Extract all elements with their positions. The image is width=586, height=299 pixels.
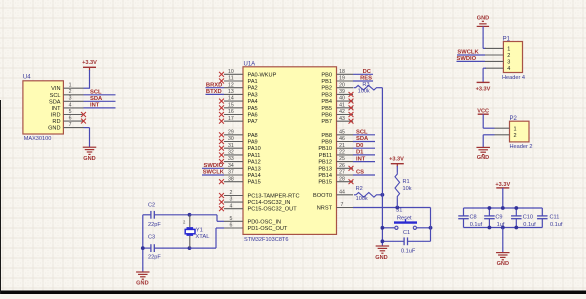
- svg-text:SWCLK: SWCLK: [203, 170, 225, 176]
- ground GND (cap bank): [496, 253, 510, 267]
- svg-text:PB1: PB1: [321, 79, 332, 85]
- svg-text:PA9: PA9: [248, 140, 258, 146]
- svg-text:44: 44: [339, 189, 345, 195]
- svg-text:PA13: PA13: [248, 166, 261, 172]
- wire P2 pin 2 to ground: [483, 135, 494, 148]
- svg-text:PB4: PB4: [321, 99, 332, 105]
- pin 42 (PB6) of U1A: [321, 109, 353, 118]
- svg-text:PA14: PA14: [248, 173, 261, 179]
- svg-text:25: 25: [339, 156, 345, 162]
- svg-text:RD: RD: [52, 119, 60, 125]
- svg-text:15: 15: [228, 102, 234, 108]
- pin 5 (IRD) of U4: [51, 109, 84, 119]
- svg-text:C10: C10: [523, 214, 533, 220]
- pin 3 (SDA) of U4: [49, 96, 84, 106]
- svg-text:27: 27: [339, 170, 345, 176]
- svg-text:5: 5: [69, 109, 72, 115]
- svg-text:P2: P2: [510, 116, 518, 122]
- svg-text:GND: GND: [375, 255, 387, 261]
- wire net SCL from U4 pin 2: [84, 94, 116, 96]
- wire net INT on U1A right: [353, 161, 375, 163]
- wire net SWDIO on PA13: [202, 167, 224, 169]
- capacitor C10 0.1uf: [511, 208, 536, 228]
- wire net SWDIO to P1 pin 3: [457, 60, 486, 62]
- wire GND to P1 pin 1: [483, 26, 486, 48]
- pin 26 (PB13) of U1A: [318, 163, 353, 172]
- net label SDA: [90, 96, 103, 102]
- svg-text:12: 12: [228, 82, 234, 88]
- svg-text:20: 20: [339, 82, 345, 88]
- svg-text:PA2: PA2: [248, 86, 258, 92]
- svg-text:11: 11: [228, 76, 233, 82]
- svg-text:0.1uf: 0.1uf: [470, 222, 483, 228]
- svg-text:PA11: PA11: [248, 153, 261, 159]
- svg-text:14: 14: [228, 96, 234, 102]
- svg-text:2: 2: [507, 53, 510, 59]
- svg-text:C2: C2: [148, 203, 155, 209]
- svg-text:PA4: PA4: [248, 99, 258, 105]
- switch S1 Reset: [382, 208, 430, 230]
- svg-text:6: 6: [69, 116, 72, 122]
- svg-text:GND: GND: [477, 155, 489, 161]
- svg-text:R2: R2: [356, 186, 363, 192]
- no-connect X on U4 pin 5: [81, 112, 86, 117]
- svg-text:PC14-OSC32_IN: PC14-OSC32_IN: [248, 200, 291, 206]
- svg-text:GND: GND: [497, 261, 509, 267]
- wire cap bank bottom rail: [464, 227, 543, 229]
- svg-text:PB3: PB3: [321, 92, 332, 98]
- svg-text:13: 13: [228, 89, 234, 95]
- wire P1 pin 4 to +3.3V: [483, 68, 486, 82]
- svg-text:PA15: PA15: [248, 180, 261, 186]
- svg-text:U1A: U1A: [244, 61, 256, 67]
- wire net SCL on U1A right: [353, 134, 375, 136]
- pin 34 (PA13) of U1A: [224, 163, 261, 172]
- wire net D0 on U1A right: [353, 147, 375, 149]
- svg-text:D0: D0: [356, 143, 363, 149]
- wire NRST right rail: [430, 208, 432, 242]
- svg-text:SWDIO: SWDIO: [204, 163, 224, 169]
- svg-text:SWDIO: SWDIO: [457, 56, 477, 62]
- svg-text:PA6: PA6: [248, 113, 258, 119]
- svg-text:IRD: IRD: [51, 113, 61, 119]
- pin 1 (VIN) of U4: [51, 83, 83, 93]
- svg-text:PB5: PB5: [321, 106, 332, 112]
- svg-text:PB15: PB15: [318, 180, 332, 186]
- svg-text:PA7: PA7: [248, 119, 258, 125]
- pin 20 (PB2) of U1A: [321, 82, 353, 91]
- svg-text:+3.3V: +3.3V: [476, 86, 491, 92]
- wire C2 to PD0-OSC_IN: [190, 215, 225, 222]
- wire net INT from U4 pin 4: [84, 107, 116, 109]
- wire net SDA from U4 pin 3: [84, 100, 116, 102]
- pin 1 of P1: [485, 46, 510, 52]
- svg-text:Header 2: Header 2: [510, 144, 533, 150]
- crystal Y1 XTAL: [183, 215, 210, 248]
- svg-text:3: 3: [69, 96, 72, 102]
- svg-text:6: 6: [229, 223, 232, 229]
- power +3.3V (R1): [389, 157, 404, 167]
- svg-text:VIN: VIN: [51, 86, 60, 92]
- svg-text:22pF: 22pF: [148, 222, 161, 228]
- pin 25 (PB12) of U1A: [318, 156, 353, 165]
- net label INT: [90, 103, 100, 109]
- svg-text:S1: S1: [396, 208, 403, 214]
- svg-text:38: 38: [228, 176, 234, 182]
- pin 4 (PC15-OSC32_OUT) of U1A: [219, 203, 297, 212]
- svg-text:PA0-WKUP: PA0-WKUP: [248, 72, 277, 78]
- pin 14 (PA4) of U1A: [219, 96, 258, 105]
- pin 2 of P2: [495, 133, 517, 139]
- svg-text:GND: GND: [83, 156, 95, 162]
- svg-text:10k: 10k: [403, 186, 412, 192]
- svg-text:18: 18: [339, 69, 345, 75]
- svg-text:22pF: 22pF: [148, 255, 161, 261]
- pin 4 of P1: [485, 66, 510, 72]
- svg-text:GND: GND: [48, 126, 60, 132]
- svg-text:BTXD: BTXD: [206, 89, 222, 95]
- pin 31 (PA10) of U1A: [219, 143, 261, 152]
- svg-text:SDA: SDA: [356, 136, 369, 142]
- wire U4 GND pin to ground: [84, 128, 90, 147]
- svg-text:Y1: Y1: [196, 228, 203, 234]
- capacitor C1 0.1uF: [382, 230, 430, 254]
- wire net SWCLK to P1 pin 2: [457, 54, 485, 56]
- screen left edge line: [0, 100, 2, 294]
- net label SDA: [356, 136, 369, 142]
- svg-text:STM32F103C8T6: STM32F103C8T6: [244, 237, 288, 243]
- junction cap bank top rail: [514, 206, 518, 210]
- svg-text:37: 37: [228, 170, 234, 176]
- pin 6 (PD1-OSC_OUT) of U1A: [224, 223, 288, 232]
- capacitor C11 0.1uf: [537, 208, 563, 228]
- wire NRST from pin 7: [353, 207, 431, 209]
- svg-text:7: 7: [69, 122, 72, 128]
- component U4 MAX30100: [23, 75, 64, 143]
- capacitor C8 0.1uf: [458, 208, 482, 228]
- svg-text:0.1uf: 0.1uf: [523, 222, 536, 228]
- svg-text:3: 3: [229, 197, 232, 203]
- svg-text:PB7: PB7: [321, 119, 332, 125]
- pin 28 (PB15) of U1A: [318, 176, 353, 185]
- svg-text:29: 29: [228, 129, 234, 135]
- svg-text:2: 2: [229, 190, 232, 196]
- pin 37 (PA14) of U1A: [224, 170, 261, 179]
- svg-text:GND: GND: [136, 280, 148, 286]
- wire VCC to P2 pin 1: [483, 114, 494, 128]
- pin 11 (PA1) of U1A: [219, 76, 258, 85]
- svg-text:SCL: SCL: [90, 90, 102, 96]
- svg-text:10: 10: [228, 69, 234, 75]
- svg-text:PA10: PA10: [248, 146, 261, 152]
- capacitor C3 22pF: [143, 234, 190, 260]
- svg-text:SCL: SCL: [50, 93, 61, 99]
- svg-text:Header 4: Header 4: [502, 75, 525, 81]
- pin 10 (PA0-WKUP) of U1A: [219, 69, 277, 78]
- svg-text:4: 4: [229, 203, 232, 209]
- svg-text:32: 32: [228, 150, 234, 156]
- svg-text:4: 4: [507, 66, 510, 72]
- pin 44 (BOOT0) of U1A: [313, 189, 353, 198]
- net label SWCLK: [203, 170, 225, 176]
- pin 45 (PB8) of U1A: [321, 129, 353, 138]
- net label INT: [356, 156, 366, 162]
- pin 46 (PB9) of U1A: [321, 136, 353, 145]
- pin 2 of P1: [485, 53, 510, 59]
- svg-text:PB6: PB6: [321, 113, 332, 119]
- svg-text:PA12: PA12: [248, 160, 261, 166]
- pin 4 (INT) of U4: [51, 102, 83, 112]
- svg-text:INT: INT: [90, 103, 100, 109]
- pin 6 (RD) of U4: [52, 116, 83, 126]
- svg-text:100k: 100k: [358, 89, 370, 95]
- power +3.3V (U4): [82, 60, 97, 70]
- resistor R1 10k pull-up: [395, 166, 412, 208]
- svg-text:PD1-OSC_OUT: PD1-OSC_OUT: [248, 226, 288, 232]
- svg-text:INT: INT: [51, 106, 61, 112]
- svg-text:PB8: PB8: [321, 133, 332, 139]
- junction C3 to rail: [141, 246, 145, 250]
- svg-text:31: 31: [228, 143, 234, 149]
- net label SCL: [356, 130, 368, 136]
- wire net BRXD on PA2: [206, 87, 225, 89]
- svg-text:Reset: Reset: [397, 215, 412, 221]
- svg-text:7: 7: [341, 202, 344, 208]
- junction cap bank top rail: [501, 206, 505, 210]
- svg-text:D1: D1: [356, 150, 364, 156]
- svg-text:1: 1: [507, 46, 510, 52]
- wire net DC on PB0: [353, 73, 373, 75]
- svg-text:NRST: NRST: [317, 206, 333, 212]
- wire net BTXD on PA3: [206, 93, 225, 95]
- pin 7 (NRST) of U1A: [317, 202, 353, 211]
- svg-text:PB9: PB9: [321, 140, 332, 146]
- pin 32 (PA11) of U1A: [219, 150, 260, 159]
- svg-text:PC13-TAMPER-RTC: PC13-TAMPER-RTC: [248, 194, 300, 200]
- ground GND (P2): [476, 147, 490, 161]
- capacitor C2 22pF: [143, 203, 190, 228]
- svg-text:41: 41: [339, 102, 345, 108]
- svg-text:39: 39: [339, 89, 345, 95]
- pin 3 of P1: [485, 59, 510, 65]
- svg-text:2: 2: [69, 89, 72, 95]
- net label SWCLK (P1): [457, 50, 479, 56]
- pin 39 (PB3) of U1A: [321, 89, 353, 98]
- pin 2 (SCL) of U4: [50, 89, 84, 99]
- svg-text:40: 40: [339, 96, 345, 102]
- net label SWDIO (P1): [457, 56, 477, 62]
- svg-text:C9: C9: [495, 214, 502, 220]
- svg-text:2: 2: [514, 133, 517, 139]
- connector P1 Header 4: [502, 36, 525, 81]
- svg-text:PB13: PB13: [318, 166, 332, 172]
- svg-text:43: 43: [339, 116, 345, 122]
- svg-text:PB12: PB12: [318, 160, 332, 166]
- svg-text:1: 1: [514, 126, 517, 132]
- resistor R2 100k on BOOT0: [354, 186, 382, 202]
- svg-text:SWCLK: SWCLK: [457, 50, 479, 56]
- svg-text:MAX30100: MAX30100: [24, 136, 52, 142]
- svg-text:P1: P1: [503, 36, 511, 42]
- junction cap bank bottom rail: [488, 226, 492, 230]
- svg-text:C3: C3: [148, 234, 155, 240]
- wire net D1 on U1A right: [353, 154, 375, 156]
- pin 15 (PA5) of U1A: [219, 102, 258, 111]
- pin 7 (GND) of U4: [48, 122, 83, 132]
- svg-text:45: 45: [339, 129, 345, 135]
- wire net CS on U1A right: [353, 174, 375, 176]
- svg-text:DC: DC: [363, 69, 372, 75]
- pin 21 (PB10) of U1A: [318, 143, 353, 152]
- svg-text:22: 22: [339, 150, 345, 156]
- svg-text:21: 21: [339, 143, 345, 149]
- svg-text:PB0: PB0: [321, 72, 332, 78]
- svg-text:C8: C8: [470, 214, 477, 220]
- svg-text:34: 34: [228, 163, 234, 169]
- junction cap bank bottom rail: [501, 226, 505, 230]
- svg-text:PA1: PA1: [248, 79, 258, 85]
- svg-text:PB14: PB14: [318, 173, 332, 179]
- junction R2 to GND rail: [381, 193, 385, 197]
- pin 13 (PA3) of U1A: [224, 89, 258, 98]
- pin 22 (PB11) of U1A: [319, 150, 353, 159]
- pin 33 (PA12) of U1A: [219, 156, 261, 165]
- ground GND (crystal): [136, 272, 150, 286]
- svg-text:PA8: PA8: [248, 133, 258, 139]
- svg-text:SDA: SDA: [49, 99, 61, 105]
- wire cap bank top rail: [464, 207, 543, 209]
- net label D1: [356, 150, 364, 156]
- pin 3 (PC14-OSC32_IN) of U1A: [219, 197, 290, 206]
- pin 2 (PC13-TAMPER-RTC) of U1A: [219, 190, 299, 199]
- svg-text:PA3: PA3: [248, 92, 258, 98]
- junction cap bank top rail: [488, 206, 492, 210]
- svg-text:28: 28: [339, 176, 345, 182]
- pin 38 (PA15) of U1A: [219, 176, 261, 185]
- net label BTXD: [206, 89, 222, 95]
- pin 27 (PB14) of U1A: [318, 170, 353, 179]
- svg-text:PB2: PB2: [321, 86, 332, 92]
- svg-text:C1: C1: [403, 230, 410, 236]
- power +3.3V (P1): [476, 82, 491, 92]
- svg-text:16: 16: [228, 109, 234, 115]
- svg-text:19: 19: [339, 76, 345, 82]
- pin 41 (PB5) of U1A: [321, 102, 353, 111]
- svg-text:SDA: SDA: [90, 96, 103, 102]
- junction cap bank bottom rail: [514, 226, 518, 230]
- wire bottom rail to ground: [502, 228, 504, 253]
- pin 30 (PA9) of U1A: [219, 136, 258, 145]
- svg-text:100k: 100k: [356, 196, 368, 202]
- junction S1 left to GND rail: [381, 226, 385, 230]
- svg-text:30: 30: [228, 136, 234, 142]
- wire +3.3V to top rail: [502, 188, 504, 208]
- svg-text:3: 3: [507, 59, 510, 65]
- svg-text:BOOT0: BOOT0: [313, 193, 332, 199]
- junction crystal top: [188, 213, 192, 217]
- net label D0: [356, 143, 363, 149]
- no-connect X on U4 pin 6: [81, 119, 86, 124]
- net label BRXD: [206, 82, 222, 88]
- pin 16 (PA6) of U1A: [219, 109, 258, 118]
- svg-text:PB11: PB11: [319, 153, 332, 159]
- net label DC: [363, 69, 372, 75]
- svg-text:SCL: SCL: [356, 130, 368, 136]
- pin 12 (PA2) of U1A: [224, 82, 258, 91]
- net label SCL: [90, 90, 102, 96]
- svg-text:C11: C11: [550, 214, 560, 220]
- ground GND (reset circuit): [375, 246, 389, 261]
- svg-text:5: 5: [229, 216, 232, 222]
- svg-text:0.1uF: 0.1uF: [401, 248, 416, 254]
- svg-text:XTAL: XTAL: [195, 234, 210, 240]
- capacitor C9 1uf: [484, 208, 505, 228]
- ground GND (P1, inverted): [477, 16, 490, 27]
- wire GND rail (R3/R2/S1/C1): [381, 88, 383, 246]
- resistor R3 100k on PB2: [354, 82, 383, 95]
- svg-text:PA5: PA5: [248, 106, 258, 112]
- wire net SDA on U1A right: [353, 141, 375, 143]
- junction C1 left to GND rail: [381, 239, 385, 243]
- svg-text:INT: INT: [356, 156, 366, 162]
- junction NRST / R1: [395, 206, 399, 210]
- power +3.3V (cap bank): [495, 182, 510, 188]
- pin 29 (PA8) of U1A: [219, 129, 258, 138]
- svg-text:1: 1: [69, 83, 72, 89]
- wire VIN to +3.3V: [84, 70, 90, 89]
- power VCC (P2): [477, 108, 489, 114]
- svg-text:33: 33: [228, 156, 234, 162]
- svg-text:46: 46: [339, 136, 345, 142]
- pin 40 (PB4) of U1A: [321, 96, 353, 105]
- connector P2 Header 2: [510, 116, 533, 150]
- svg-text:CS: CS: [356, 170, 364, 176]
- svg-text:0.1uf: 0.1uf: [550, 222, 563, 228]
- pin 1 of P2: [495, 126, 517, 132]
- junction S1 right to NRST rail: [429, 226, 433, 230]
- net label RES: [360, 76, 372, 82]
- ground GND (U4): [83, 147, 97, 162]
- pin 5 (PD0-OSC_IN) of U1A: [224, 216, 281, 225]
- svg-text:+3.3V: +3.3V: [389, 157, 404, 163]
- svg-text:R1: R1: [403, 179, 410, 185]
- svg-text:R3: R3: [362, 82, 369, 88]
- pin 19 (PB1) of U1A: [321, 76, 353, 85]
- net label SWDIO: [204, 163, 224, 169]
- svg-text:PC15-OSC32_OUT: PC15-OSC32_OUT: [248, 207, 298, 213]
- wire net SWCLK on PA14: [202, 174, 224, 176]
- op-amp U1A STM32F103C8T6 body: [243, 61, 337, 242]
- pin 17 (PA7) of U1A: [219, 116, 258, 125]
- screen bottom black bar: [0, 291, 586, 295]
- svg-text:BRXD: BRXD: [206, 82, 222, 88]
- svg-text:17: 17: [228, 116, 234, 122]
- svg-text:+3.3V: +3.3V: [82, 60, 97, 66]
- net label CS: [356, 170, 364, 176]
- svg-text:RES: RES: [360, 76, 372, 82]
- svg-text:42: 42: [339, 109, 345, 115]
- pin 43 (PB7) of U1A: [321, 116, 353, 125]
- svg-text:4: 4: [69, 102, 72, 108]
- svg-text:+3.3V: +3.3V: [495, 182, 510, 188]
- svg-text:26: 26: [339, 163, 345, 169]
- svg-text:PB10: PB10: [318, 146, 332, 152]
- svg-text:PD0-OSC_IN: PD0-OSC_IN: [248, 219, 282, 225]
- pin 18 (PB0) of U1A: [321, 69, 353, 78]
- junction crystal bottom: [188, 246, 192, 250]
- svg-text:U4: U4: [23, 75, 31, 81]
- wire crystal left rail: [142, 215, 144, 272]
